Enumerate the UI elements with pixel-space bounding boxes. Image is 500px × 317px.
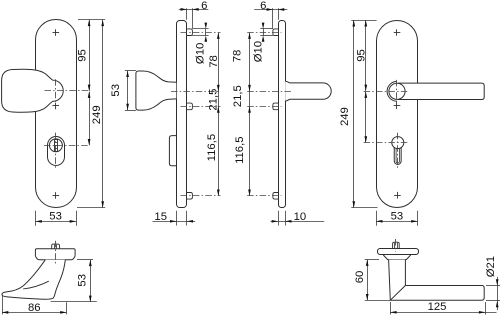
svg-text:125: 125 (428, 301, 447, 313)
svg-text:95: 95 (355, 49, 367, 62)
svg-text:15: 15 (154, 211, 167, 223)
svg-text:53: 53 (76, 274, 88, 287)
svg-text:116,5: 116,5 (234, 136, 246, 163)
svg-text:86: 86 (28, 302, 41, 314)
svg-text:21,5: 21,5 (232, 85, 244, 107)
svg-text:Ø21: Ø21 (485, 256, 497, 277)
svg-text:249: 249 (339, 107, 351, 126)
svg-text:6: 6 (260, 0, 266, 12)
svg-text:Ø10: Ø10 (194, 43, 206, 64)
svg-text:60: 60 (354, 271, 366, 284)
svg-text:78: 78 (208, 55, 220, 68)
svg-text:53: 53 (110, 84, 122, 97)
svg-text:78: 78 (231, 50, 243, 63)
svg-text:10: 10 (294, 211, 307, 223)
svg-text:6: 6 (201, 0, 207, 12)
svg-text:53: 53 (391, 210, 404, 222)
svg-text:Ø10: Ø10 (253, 41, 265, 62)
svg-text:95: 95 (76, 49, 88, 62)
svg-text:116,5: 116,5 (206, 134, 218, 161)
svg-text:249: 249 (91, 105, 103, 124)
svg-text:21,5: 21,5 (207, 89, 219, 111)
svg-text:53: 53 (49, 210, 62, 222)
